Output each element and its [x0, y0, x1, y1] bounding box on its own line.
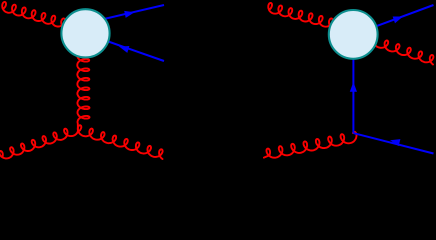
- arrowhead on q3 (pointing away from blob): [393, 17, 403, 24]
- gluon g3 (outgoing, lower-left, left diagram): [0, 129, 78, 159]
- quark line q5 (incoming, bottom-right, right diagram): [354, 133, 434, 153]
- gluon g6 (outgoing, right side, right diagram): [373, 37, 433, 65]
- arrowhead on q2 (pointing toward blob): [119, 46, 129, 53]
- gluon g5 (incoming, top-left, right diagram): [268, 3, 334, 29]
- blob (effective vertex, right diagram): [329, 10, 378, 59]
- blob (effective vertex, left diagram): [61, 9, 109, 57]
- node: 3-gluon vertex (left diagram): [77, 130, 79, 132]
- quark propagator q4 (vertical, vertex to blob, right diagram): [352, 56, 354, 133]
- arrowhead on q4 (pointing up into blob): [350, 82, 357, 92]
- gluon g7 (incoming, bottom, right diagram): [264, 132, 357, 158]
- arrowhead on q5 (pointing toward vertex): [390, 139, 400, 146]
- gluon g4 (outgoing, lower-right, left diagram): [78, 125, 163, 159]
- quark line q3 (outgoing, top-right, right diagram): [374, 5, 434, 27]
- antiquark line q2 (top-right lower, left diagram): [104, 40, 164, 61]
- gluon propagator g2 (blob to 3-gluon vertex, left diagram): [77, 57, 89, 131]
- gluon g1 (incoming, top-left, left diagram): [2, 2, 66, 29]
- quark line q1 (outgoing, top-right, left diagram): [104, 5, 164, 19]
- arrowhead on q1 (pointing away from blob): [124, 11, 134, 18]
- node: gluon-quark vertex (right diagram): [353, 132, 355, 134]
